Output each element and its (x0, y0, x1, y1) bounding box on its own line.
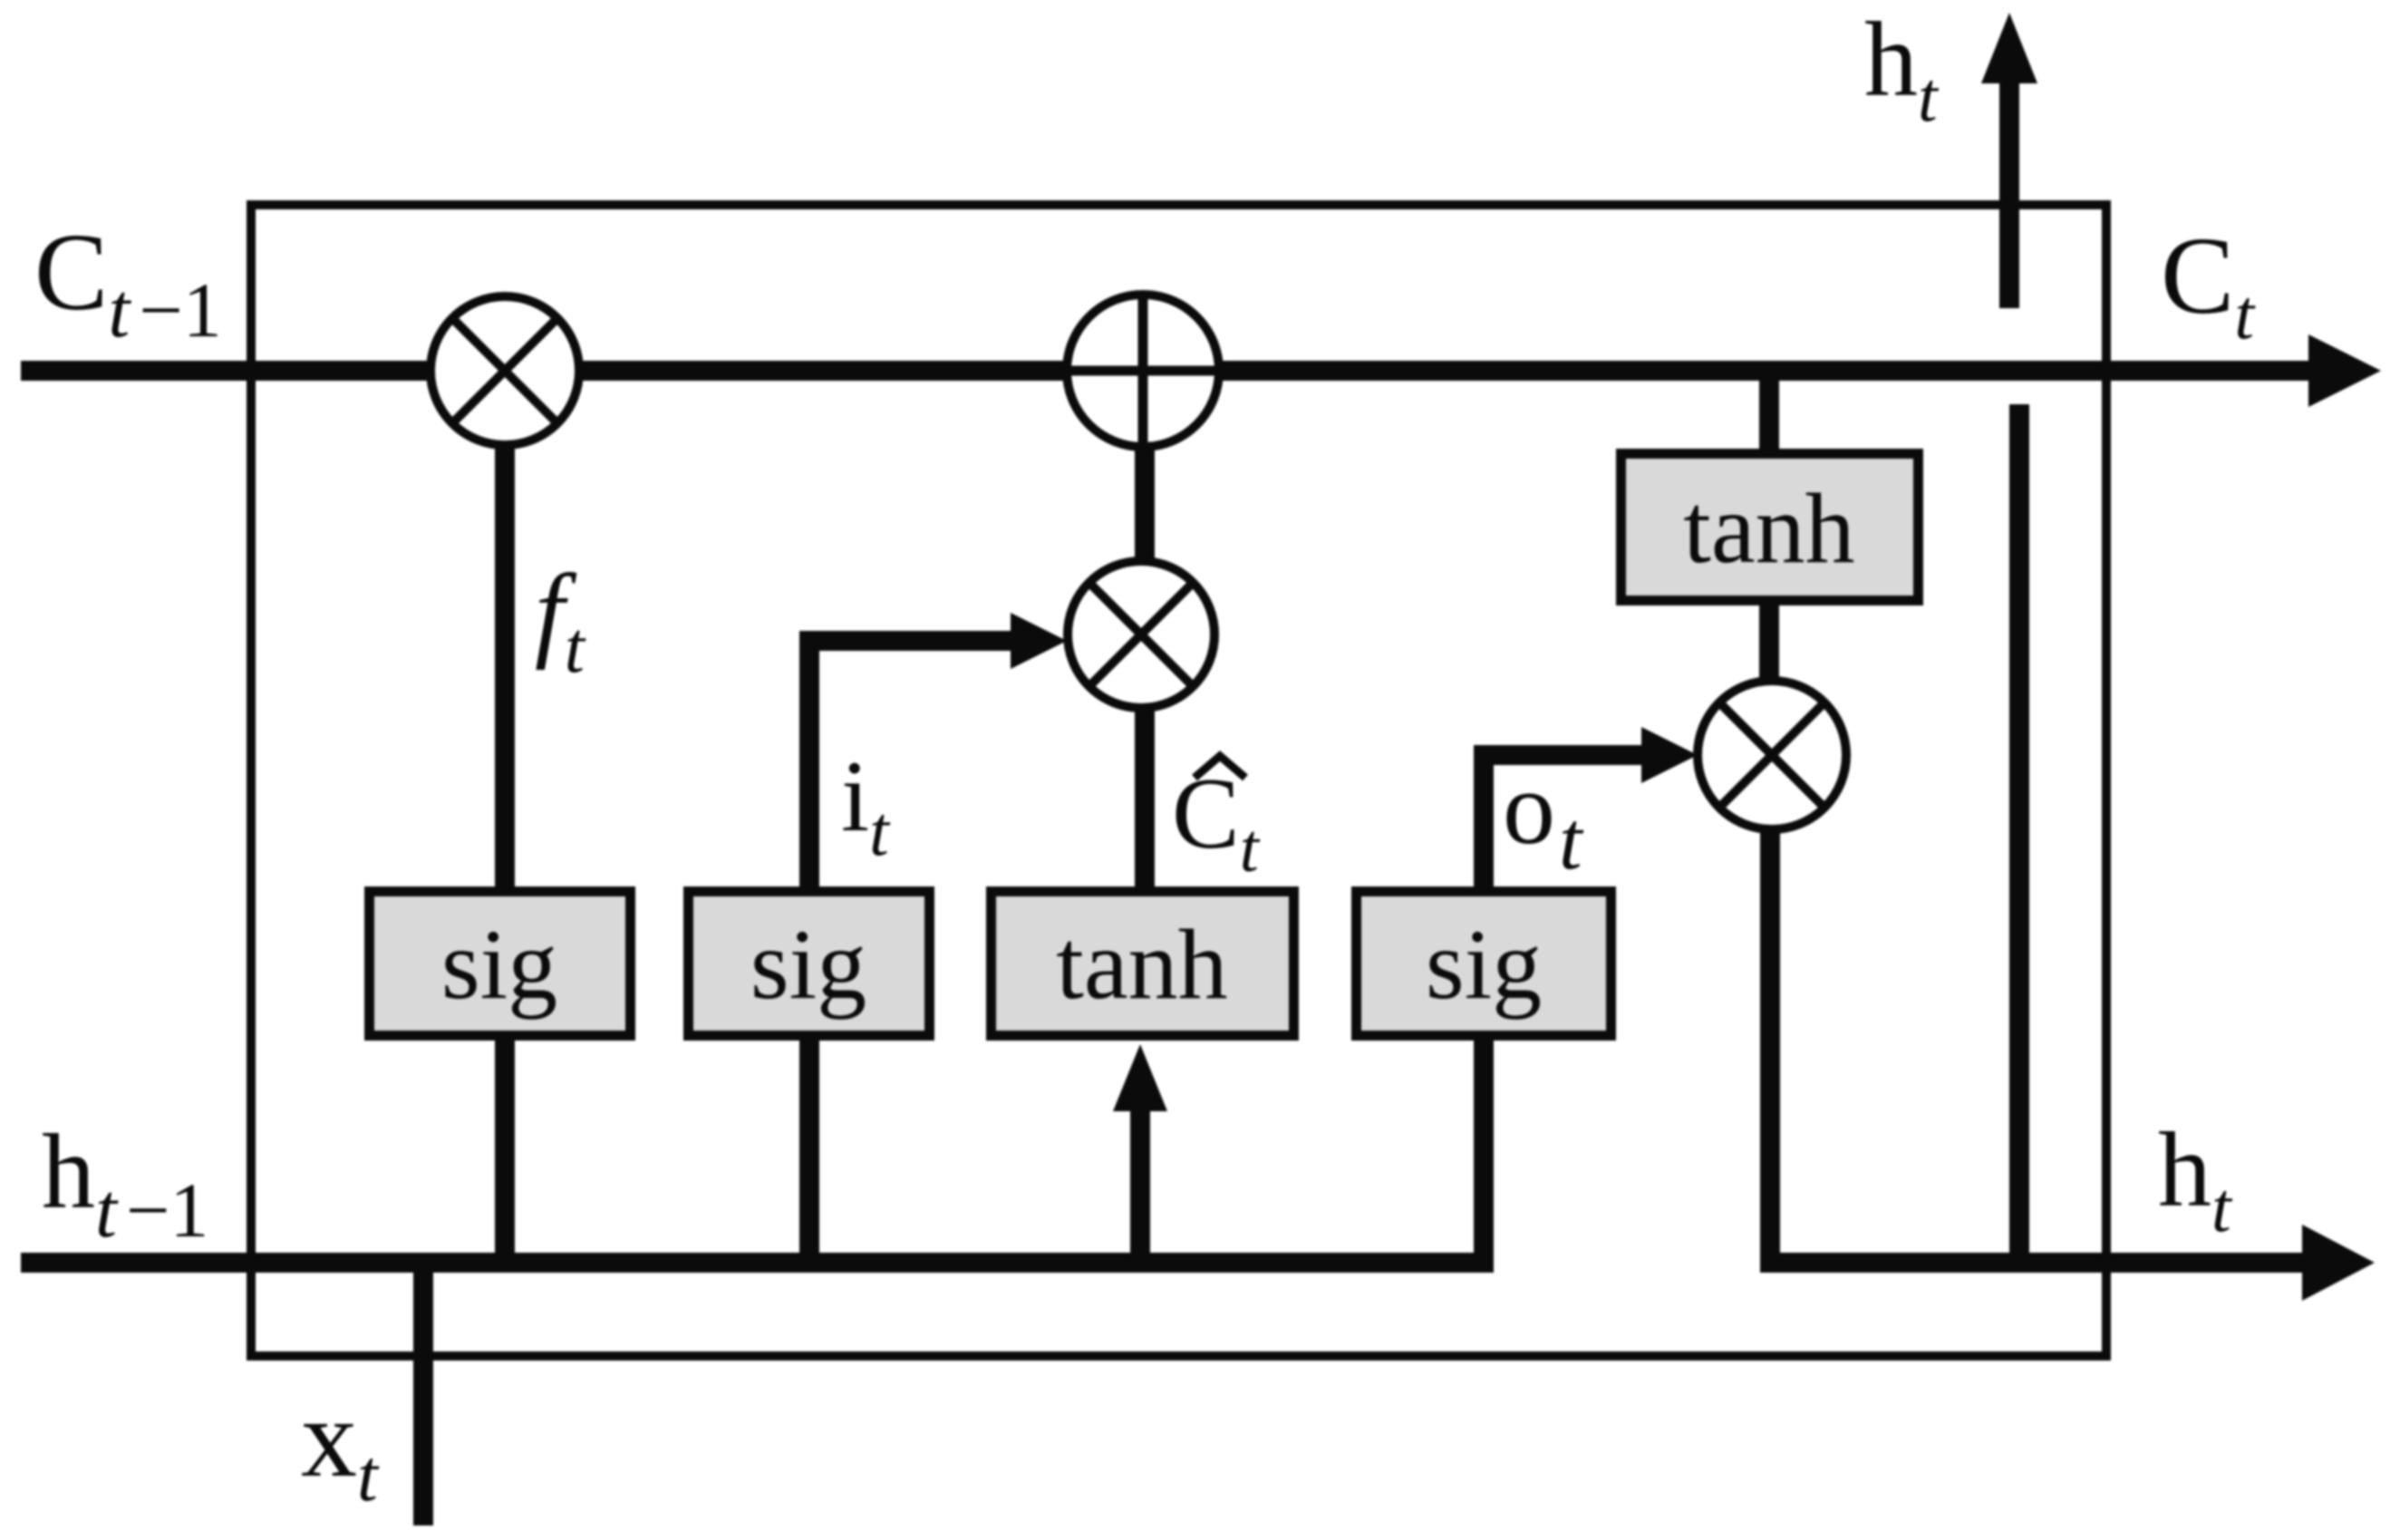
box sig3 (output gate) (1357, 892, 1611, 1036)
arrowhead h_t top (1981, 13, 2037, 83)
multiply circle middle (input x candidate) (1068, 561, 1214, 708)
svg-text:sig: sig (1426, 909, 1542, 1020)
multiply circle output (1698, 681, 1846, 829)
wire: long vertical h_t branch up inside box (2009, 404, 2029, 1263)
arrowhead into middle multiply (1011, 613, 1067, 669)
wire: C-line (cell state, C_t-1 to C_t) (21, 361, 2313, 381)
arrowhead into output multiply (1641, 727, 1698, 783)
wire: C-line branch down through top tanh box to output multiply (1759, 371, 1779, 755)
box sig2 (input gate) (689, 892, 930, 1036)
label C-hat_t (1172, 756, 1261, 886)
svg-text:sig: sig (441, 909, 557, 1020)
wire: h-line left segment + o_t gate riser (21, 755, 1646, 1263)
arrowhead into bottom tanh box (1113, 1044, 1167, 1111)
wire: x_t input (413, 1263, 433, 1525)
arrowhead C_t exit right (2308, 334, 2381, 407)
svg-text:sig: sig (750, 909, 866, 1020)
add circle (1067, 295, 1219, 447)
box sig1 (forget gate) (370, 892, 631, 1036)
multiply circle forget gate (431, 296, 579, 445)
wire: h_t top arrow tail (1999, 82, 2019, 308)
svg-text:tanh: tanh (1683, 473, 1854, 584)
box tanh top right (1621, 454, 1919, 601)
wire: i_t riser and arrow into middle multiply (809, 641, 1015, 1263)
svg-text:tanh: tanh (1056, 909, 1227, 1020)
wire: add circle down through middle multiply to tanh box (1135, 385, 1155, 886)
arrowhead h_t exit right (2302, 1225, 2375, 1301)
box tanh bottom (candidate) (992, 892, 1294, 1036)
wire: output multiply down and right to h_t exit (1770, 755, 2307, 1263)
wire: f_t drop from forget multiply to sig1 and h-line (495, 394, 515, 1263)
wire: arrow from h-line up into bottom tanh box (1130, 1108, 1150, 1263)
LSTM cell outer box (251, 205, 2106, 1356)
